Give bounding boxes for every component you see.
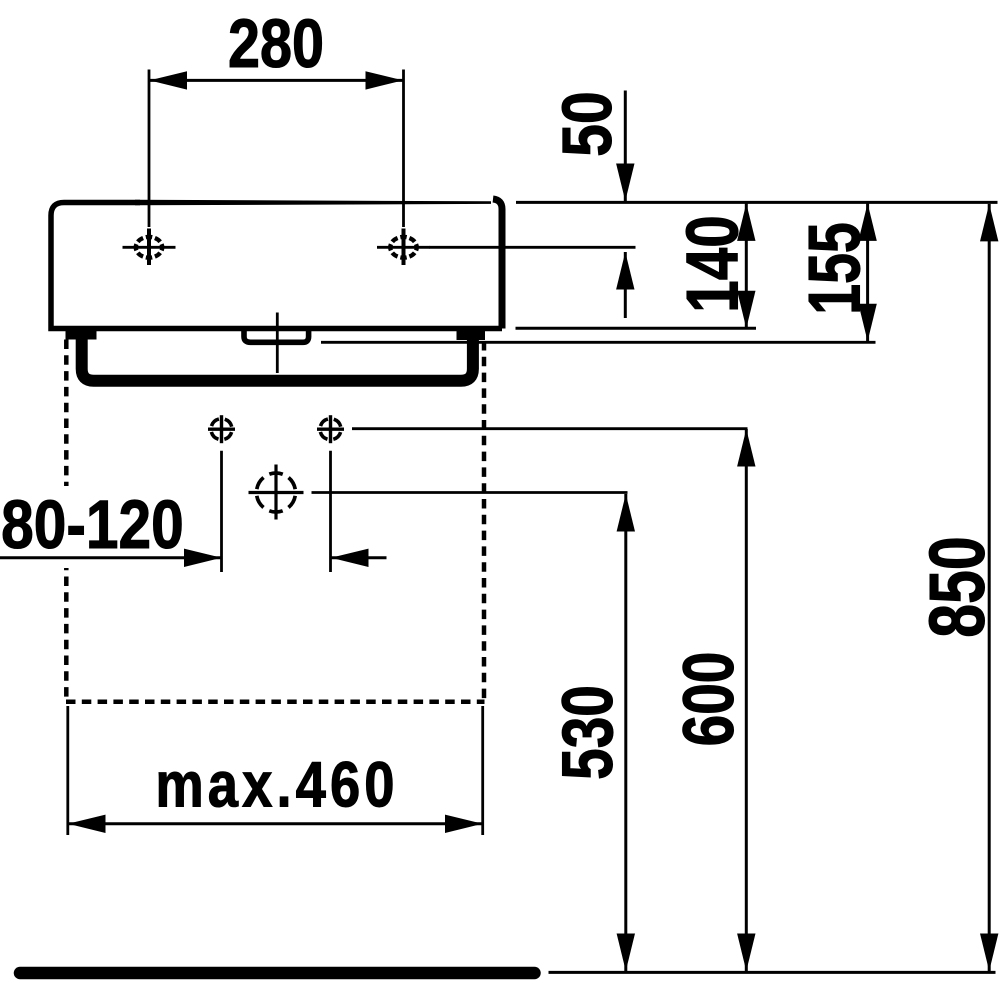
svg-text:280: 280 (228, 6, 324, 82)
svg-text:530: 530 (548, 685, 628, 780)
svg-text:850: 850 (913, 536, 1000, 638)
svg-text:600: 600 (669, 652, 749, 747)
svg-text:max.460: max.460 (155, 748, 398, 820)
svg-text:155: 155 (793, 222, 875, 315)
svg-text:140: 140 (672, 215, 754, 312)
svg-text:50: 50 (547, 91, 626, 156)
svg-text:80-120: 80-120 (1, 486, 184, 564)
